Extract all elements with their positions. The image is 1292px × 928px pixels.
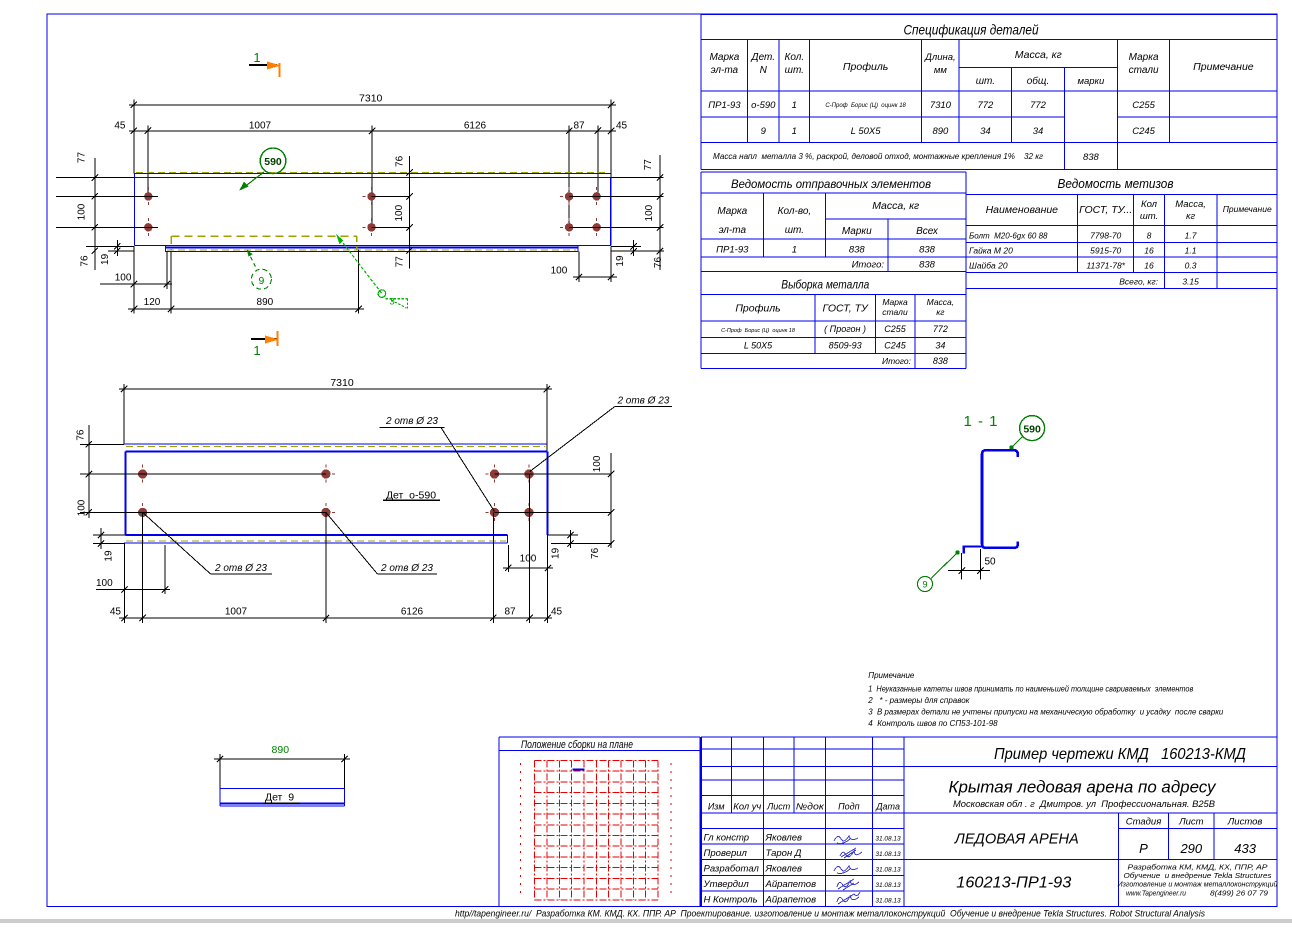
svg-text:1007: 1007 bbox=[225, 607, 248, 618]
svg-text:Наименование: Наименование bbox=[986, 204, 1059, 216]
view2 hole label 3 (top-middle) with leader bbox=[380, 416, 495, 512]
svg-text:87: 87 bbox=[573, 121, 585, 132]
svg-text:31.08.13: 31.08.13 bbox=[875, 897, 901, 904]
svg-text:120: 120 bbox=[144, 297, 161, 308]
view2 hole label 2 (bottom-middle) with leader bbox=[326, 512, 437, 574]
view1 right dim chain 77/100/76 bbox=[643, 155, 664, 270]
view2 bolt-row extension lines bbox=[93, 474, 612, 544]
svg-text:Кол.: Кол. bbox=[784, 52, 804, 63]
svg-text:L 50Х5: L 50Х5 bbox=[851, 126, 882, 137]
table: specification of parts (Spetsifikatsiya detaley) bbox=[701, 14, 1277, 169]
svg-text:ЛЕДОВАЯ АРЕНА: ЛЕДОВАЯ АРЕНА bbox=[954, 831, 1079, 848]
svg-text:Пример чертежи КМД 160213-КМ: Пример чертежи КМД 160213-КМД bbox=[994, 746, 1246, 763]
svg-text:0.3: 0.3 bbox=[1185, 261, 1197, 271]
svg-text:76: 76 bbox=[79, 255, 90, 267]
svg-text:433: 433 bbox=[1234, 841, 1256, 856]
detail 9 label bbox=[264, 792, 300, 804]
svg-text:19: 19 bbox=[100, 253, 111, 265]
svg-text:www.Tapengineer.ru: www.Tapengineer.ru bbox=[1126, 891, 1186, 898]
svg-text:шт.: шт. bbox=[785, 65, 804, 76]
svg-text:Изготовление и монтаж металлок: Изготовление и монтаж металлоконструкций bbox=[1118, 881, 1278, 889]
view2 right dim chain 100/76 bbox=[590, 453, 614, 559]
svg-text:838: 838 bbox=[919, 245, 936, 256]
svg-text:Марка: Марка bbox=[709, 52, 739, 63]
svg-text:С245: С245 bbox=[884, 341, 907, 351]
svg-text:3 В размерах детали не учтены: 3 В размерах детали не учтены припуски н… bbox=[868, 708, 1224, 717]
svg-text:3: 3 bbox=[389, 297, 394, 308]
svg-text:Изм: Изм bbox=[708, 802, 725, 812]
svg-text:1 - 1: 1 - 1 bbox=[963, 413, 998, 430]
svg-text:шт.: шт. bbox=[976, 76, 995, 87]
view1 bolts (8) bbox=[139, 187, 157, 206]
view2 label Det o-590 bbox=[383, 490, 440, 502]
svg-text:77: 77 bbox=[76, 152, 87, 164]
svg-text:Марка: Марка bbox=[882, 297, 908, 307]
svg-text:2 * - размеры для справок: 2 * - размеры для справок bbox=[867, 696, 970, 705]
svg-text:Гл констр: Гл констр bbox=[704, 833, 750, 844]
view1 bolt-row extension lines bbox=[56, 178, 664, 252]
svg-text:Н Контроль: Н Контроль bbox=[704, 894, 758, 905]
svg-text:Лист: Лист bbox=[766, 802, 791, 812]
svg-text:890: 890 bbox=[932, 126, 949, 137]
svg-text:34: 34 bbox=[1033, 126, 1044, 137]
svg-text:45: 45 bbox=[110, 607, 122, 618]
svg-text:Айрапетов: Айрапетов bbox=[765, 894, 817, 905]
detail 9 dim 890 bbox=[214, 744, 350, 789]
svg-text:590: 590 bbox=[1023, 423, 1041, 435]
title block texts bbox=[949, 746, 1278, 898]
svg-text:1: 1 bbox=[792, 100, 797, 111]
svg-text:11371-78*: 11371-78* bbox=[1086, 261, 1125, 271]
svg-text:общ.: общ. bbox=[1027, 75, 1049, 87]
view2 bottom-left dim 100 bbox=[96, 545, 170, 594]
svg-text:31.08.13: 31.08.13 bbox=[875, 882, 901, 889]
view2 dimension 7310 bbox=[119, 377, 552, 451]
svg-text:Масса, кг: Масса, кг bbox=[1015, 49, 1062, 61]
view2 right dim 19 bbox=[551, 530, 574, 559]
view2 bottom-right dim 100 bbox=[503, 545, 553, 572]
svg-text:772: 772 bbox=[1030, 100, 1047, 111]
svg-text:19: 19 bbox=[615, 255, 626, 267]
table: hardware list (Vedomost metizov) bbox=[966, 177, 1278, 289]
svg-text:Профиль: Профиль bbox=[843, 61, 888, 73]
svg-text:8509-93: 8509-93 bbox=[829, 341, 862, 351]
svg-text:шт.: шт. bbox=[1140, 211, 1158, 222]
svg-text:С255: С255 bbox=[1132, 100, 1155, 111]
svg-text:Р: Р bbox=[1139, 841, 1148, 856]
svg-text:Кол-во,: Кол-во, bbox=[778, 206, 812, 217]
assembly position box (Polozhenie sborki na plane) bbox=[499, 737, 700, 907]
section 1-1 mark circle 590 bbox=[1009, 416, 1044, 450]
svg-text:9: 9 bbox=[761, 126, 767, 137]
svg-text:87: 87 bbox=[504, 607, 516, 618]
svg-text:7798-70: 7798-70 bbox=[1090, 231, 1121, 241]
svg-text:4 Контроль швов по СП53-101-9: 4 Контроль швов по СП53-101-98 bbox=[868, 719, 998, 728]
svg-text:Болт М20-6gх 60 88: Болт М20-6gх 60 88 bbox=[969, 232, 1048, 241]
svg-text:19: 19 bbox=[551, 547, 562, 559]
table: metal extraction (Vyborka metalla) bbox=[701, 272, 966, 369]
svg-text:1: 1 bbox=[792, 245, 797, 256]
view1 purlin outline (top view) bbox=[134, 172, 610, 245]
svg-text:100: 100 bbox=[394, 204, 405, 221]
view2 purlin outline bbox=[124, 444, 548, 543]
svg-text:8: 8 bbox=[1147, 231, 1152, 241]
svg-text:Крытая ледовая арена по адресу: Крытая ледовая арена по адресу bbox=[949, 778, 1217, 797]
svg-text:31.08.13: 31.08.13 bbox=[875, 836, 901, 843]
svg-text:45: 45 bbox=[616, 121, 628, 132]
svg-text:1007: 1007 bbox=[249, 121, 272, 132]
svg-text:Ведомость отправочных элементо: Ведомость отправочных элементов bbox=[731, 177, 931, 191]
svg-text:8(499) 26 07 79: 8(499) 26 07 79 bbox=[1210, 891, 1268, 898]
svg-text:Всего, кг:: Всего, кг: bbox=[1119, 277, 1158, 287]
notes block (Primechanie) bbox=[867, 671, 1224, 728]
svg-text:Марка: Марка bbox=[717, 206, 747, 217]
svg-text:890: 890 bbox=[257, 297, 274, 308]
view1 mark circle 590 with leader arrow bbox=[239, 148, 286, 191]
svg-text:Проверил: Проверил bbox=[704, 848, 748, 859]
svg-text:7310: 7310 bbox=[330, 377, 354, 389]
svg-text:34: 34 bbox=[935, 341, 945, 351]
svg-text:100: 100 bbox=[520, 554, 537, 565]
section 1-1 angle L50x5 bbox=[964, 547, 984, 554]
svg-text:19: 19 bbox=[103, 550, 114, 562]
svg-text:9: 9 bbox=[258, 275, 264, 287]
section mark 1 (top) bbox=[249, 50, 281, 77]
view1 bottom-right dim 100 bbox=[551, 246, 617, 282]
svg-text:838: 838 bbox=[849, 245, 866, 256]
svg-text:Дет 9: Дет 9 bbox=[265, 792, 294, 804]
view1 dimension 7310 bbox=[129, 93, 616, 178]
svg-text:Итого:: Итого: bbox=[882, 356, 912, 366]
svg-text:Дет.: Дет. bbox=[751, 52, 776, 63]
svg-text:Шайба 20: Шайба 20 bbox=[969, 261, 1008, 271]
assembly position marker (blue) bbox=[572, 768, 584, 770]
svg-text:100: 100 bbox=[76, 203, 87, 220]
svg-text:838: 838 bbox=[919, 260, 936, 271]
svg-text:3.15: 3.15 bbox=[1182, 277, 1199, 287]
section mark 1 (bottom) bbox=[251, 331, 279, 358]
svg-text:Кол: Кол bbox=[1141, 199, 1158, 210]
svg-text:Масса напл металла 3 %, раскр: Масса напл металла 3 %, раскрой, деловой… bbox=[713, 152, 1043, 161]
svg-text:Примечание: Примечание bbox=[1193, 61, 1254, 73]
bottom gray strip bbox=[0, 919, 1292, 923]
svg-text:Лист: Лист bbox=[1178, 817, 1204, 828]
view1 dimension chain 45|1007|6126|87|45 bbox=[114, 121, 627, 228]
svg-text:100: 100 bbox=[551, 266, 568, 277]
svg-text:Яковлев: Яковлев bbox=[765, 833, 803, 844]
svg-text:кг: кг bbox=[1186, 211, 1195, 222]
svg-text:С255: С255 bbox=[884, 324, 907, 334]
title block grid bbox=[701, 737, 1277, 907]
svg-text:2 отв Ø 23: 2 отв Ø 23 bbox=[385, 416, 438, 427]
view2 left dim chain 76/100 bbox=[75, 425, 124, 518]
view1 dashed weld region rectangle bbox=[171, 236, 357, 250]
svg-text:Марки: Марки bbox=[842, 226, 872, 237]
svg-text:эл-та: эл-та bbox=[711, 65, 739, 76]
view1 left dim 19 bbox=[100, 240, 121, 265]
section 1-1 C-profile bbox=[982, 450, 1018, 548]
svg-text:9: 9 bbox=[922, 580, 927, 590]
title block header row bbox=[708, 802, 900, 812]
svg-text:7310: 7310 bbox=[359, 93, 383, 105]
svg-text:838: 838 bbox=[1083, 152, 1100, 163]
svg-text:50: 50 bbox=[984, 557, 996, 568]
svg-text:№док: №док bbox=[796, 802, 825, 812]
svg-text:Стадия: Стадия bbox=[1126, 817, 1162, 828]
svg-text:http//tapengineer.ru/ Разрабо: http//tapengineer.ru/ Разработка КМ. КМД… bbox=[455, 909, 1205, 920]
svg-text:Всех: Всех bbox=[916, 226, 939, 237]
svg-text:2 отв Ø 23: 2 отв Ø 23 bbox=[380, 563, 433, 574]
svg-text:Примечание: Примечание bbox=[868, 671, 915, 680]
svg-text:Масса,: Масса, bbox=[927, 297, 955, 307]
svg-text:2 отв Ø 23: 2 отв Ø 23 bbox=[214, 563, 267, 574]
svg-text:77: 77 bbox=[643, 159, 654, 171]
svg-text:ПР1-93: ПР1-93 bbox=[708, 100, 741, 111]
section 1-1 dim 50 bbox=[948, 549, 996, 580]
svg-text:5915-70: 5915-70 bbox=[1090, 246, 1121, 256]
svg-text:7310: 7310 bbox=[930, 100, 952, 111]
svg-text:100: 100 bbox=[592, 455, 603, 472]
svg-text:Профиль: Профиль bbox=[735, 303, 780, 315]
svg-text:76: 76 bbox=[590, 547, 601, 559]
view1 right dim 19 bbox=[615, 240, 637, 267]
svg-text:100: 100 bbox=[115, 273, 132, 284]
svg-text:1: 1 bbox=[253, 343, 260, 358]
svg-text:100: 100 bbox=[77, 499, 88, 516]
svg-text:160213-ПР1-93: 160213-ПР1-93 bbox=[956, 875, 1071, 892]
title block signature rows bbox=[703, 833, 902, 906]
svg-text:Кол уч: Кол уч bbox=[733, 802, 761, 812]
svg-text:L 50Х5: L 50Х5 bbox=[744, 341, 773, 351]
svg-text:мм: мм bbox=[934, 65, 948, 76]
svg-text:Разработка КМ, КМД, КХ, ППР, А: Разработка КМ, КМД, КХ, ППР, АР bbox=[1128, 863, 1268, 872]
svg-text:N: N bbox=[760, 65, 768, 76]
svg-text:шт.: шт. bbox=[785, 225, 804, 236]
svg-text:2 отв Ø 23: 2 отв Ø 23 bbox=[616, 396, 669, 407]
svg-text:Разработал: Разработал bbox=[704, 864, 760, 875]
svg-text:Марка: Марка bbox=[1129, 52, 1159, 63]
svg-text:772: 772 bbox=[977, 100, 994, 111]
view1 middle dim chain 76/100/77 bbox=[394, 155, 413, 268]
svg-text:45: 45 bbox=[551, 607, 563, 618]
svg-text:16: 16 bbox=[1144, 261, 1154, 271]
svg-text:Утвердил: Утвердил bbox=[703, 879, 750, 890]
svg-text:77: 77 bbox=[395, 256, 406, 268]
svg-text:6126: 6126 bbox=[401, 607, 424, 618]
svg-text:Подп: Подп bbox=[838, 802, 860, 812]
svg-text:Итого:: Итого: bbox=[852, 260, 885, 271]
svg-text:Ведомость метизов: Ведомость метизов bbox=[1058, 177, 1174, 191]
svg-text:Листов: Листов bbox=[1227, 817, 1263, 828]
view1 weld symbol leader 3 bbox=[336, 234, 408, 308]
svg-text:76: 76 bbox=[395, 155, 406, 167]
svg-text:6126: 6126 bbox=[464, 121, 487, 132]
svg-text:стали: стали bbox=[1129, 65, 1159, 76]
svg-text:Гайка М 20: Гайка М 20 bbox=[969, 246, 1013, 256]
view2 bottom dim chain 45|1007|6126|87|45 bbox=[110, 474, 563, 623]
svg-text:Примечание: Примечание bbox=[1223, 204, 1272, 214]
svg-text:590: 590 bbox=[264, 156, 282, 168]
svg-text:Выборка металла: Выборка металла bbox=[781, 278, 869, 292]
view2 left dim 19 bbox=[98, 528, 115, 562]
detail 9 angle piece bbox=[220, 789, 345, 806]
svg-text:ГОСТ, ТУ...: ГОСТ, ТУ... bbox=[1079, 204, 1132, 216]
svg-text:1: 1 bbox=[792, 126, 797, 137]
signatures (blue scribbles) bbox=[834, 836, 862, 904]
svg-text:16: 16 bbox=[1144, 246, 1154, 256]
svg-text:1.7: 1.7 bbox=[1185, 231, 1197, 241]
svg-text:76: 76 bbox=[653, 257, 664, 269]
svg-text:ПР1-93: ПР1-93 bbox=[716, 245, 749, 256]
view1 bottom dims 120 and 890 bbox=[128, 250, 364, 314]
svg-text:Тарон Д: Тарон Д bbox=[766, 848, 802, 859]
svg-text:ГОСТ, ТУ: ГОСТ, ТУ bbox=[822, 303, 868, 315]
svg-text:Обучение и внедрение Tekla St: Обучение и внедрение Tekla Structures bbox=[1124, 872, 1273, 880]
svg-text:772: 772 bbox=[933, 324, 948, 334]
view1 angle piece (hidden below) bbox=[166, 246, 579, 252]
view2 hole label 4 (top-right) with leader bbox=[530, 396, 672, 472]
svg-text:34: 34 bbox=[980, 126, 991, 137]
svg-text:Спецификация деталей: Спецификация деталей bbox=[904, 22, 1039, 38]
section 1-1 detail circle 9 with leader bbox=[918, 550, 960, 591]
view1 bottom-left dim 100 bbox=[100, 246, 172, 313]
svg-text:марки: марки bbox=[1077, 76, 1105, 87]
svg-text:Дата: Дата bbox=[875, 802, 900, 812]
assembly plan red grid bbox=[521, 760, 672, 900]
svg-text:Положение сборки на плане: Положение сборки на плане bbox=[521, 739, 633, 751]
svg-text:45: 45 bbox=[114, 121, 126, 132]
svg-text:100: 100 bbox=[96, 578, 113, 589]
svg-text:Яковлев: Яковлев bbox=[765, 864, 803, 875]
table: list of shipping elements (Vedomost otpravochnykh elementov) bbox=[701, 172, 966, 272]
svg-text:76: 76 bbox=[75, 429, 86, 441]
view2 hole label 1 (bottom-left) with leader bbox=[143, 512, 272, 574]
view1 left dim chain 77/100/76 bbox=[76, 152, 98, 270]
svg-text:С-Проф Борис (Ц) оцинк 18: С-Проф Борис (Ц) оцинк 18 bbox=[721, 328, 796, 334]
svg-text:( Прогон ): ( Прогон ) bbox=[824, 324, 866, 334]
svg-text:890: 890 bbox=[272, 744, 290, 756]
svg-text:кг: кг bbox=[936, 307, 944, 317]
svg-text:838: 838 bbox=[933, 356, 948, 366]
view2 bolts (8) bbox=[134, 465, 152, 484]
svg-text:1: 1 bbox=[253, 50, 260, 65]
svg-text:31.08.13: 31.08.13 bbox=[875, 867, 901, 874]
svg-text:стали: стали bbox=[882, 307, 908, 317]
svg-text:Масса, кг: Масса, кг bbox=[872, 200, 919, 212]
svg-text:эл-та: эл-та bbox=[719, 225, 747, 236]
svg-text:Айрапетов: Айрапетов bbox=[765, 879, 817, 890]
view1 detail circle 9 (dashed) with leader bbox=[247, 249, 272, 289]
svg-text:С-Проф Борис (Ц) оцинк 18: С-Проф Борис (Ц) оцинк 18 bbox=[825, 103, 906, 109]
svg-text:100: 100 bbox=[644, 204, 655, 221]
svg-text:1 Неуказанные катеты швов при: 1 Неуказанные катеты швов принимать по н… bbox=[868, 685, 1193, 694]
svg-text:С245: С245 bbox=[1132, 126, 1155, 137]
svg-text:Московская обл . г Дмитров. у: Московская обл . г Дмитров. ул Профессио… bbox=[953, 799, 1215, 809]
svg-text:31.08.13: 31.08.13 bbox=[875, 851, 901, 858]
svg-text:290: 290 bbox=[1179, 841, 1202, 856]
svg-text:о-590: о-590 bbox=[751, 100, 776, 111]
svg-text:Масса,: Масса, bbox=[1175, 199, 1206, 210]
svg-text:Длина,: Длина, bbox=[924, 52, 955, 63]
svg-text:1.1: 1.1 bbox=[1185, 246, 1197, 256]
